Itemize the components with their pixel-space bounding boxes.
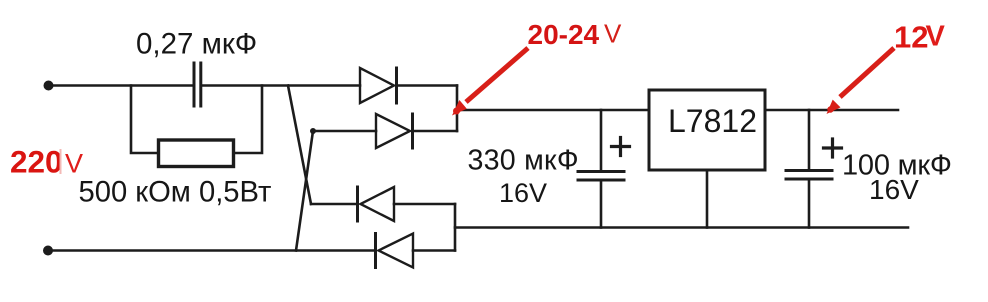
- node input terminal top: [44, 81, 54, 91]
- wire top AC left segment: [48, 84, 193, 87]
- wire D3 to - node: [394, 203, 455, 206]
- svg-text:20-24: 20-24: [528, 19, 600, 50]
- wire D1 to + node: [397, 84, 458, 87]
- wire slant top-AC to D3: [288, 86, 311, 205]
- arrow to 12 V node: [840, 48, 894, 97]
- svg-text:V: V: [926, 21, 946, 53]
- wire D2 to + node: [413, 130, 458, 133]
- svg-text:16V: 16V: [869, 174, 919, 205]
- capacitor C2 330 мкФ: [600, 110, 603, 171]
- svg-text:L7812: L7812: [668, 103, 757, 139]
- svg-text:16V: 16V: [499, 178, 547, 208]
- capacitor C1 0,27 мкФ plates: [193, 63, 196, 106]
- regulator U1 L7812 box: [649, 90, 765, 170]
- wire output plus rail right: [765, 109, 898, 112]
- diode D4: [374, 234, 377, 268]
- diode D1: [360, 68, 394, 103]
- svg-text:500 кОм 0,5Вт: 500 кОм 0,5Вт: [79, 177, 272, 209]
- node input terminal bottom: [43, 246, 53, 256]
- wire bridge minus vertical: [454, 204, 457, 251]
- wire slant D2 to bottom AC: [296, 131, 313, 251]
- node junction D2-slant: [310, 128, 316, 134]
- wire bottom AC: [48, 249, 375, 252]
- arrow to 20-24 V node: [466, 48, 528, 102]
- plus sign C3: [824, 146, 842, 149]
- svg-text:330 мкФ: 330 мкФ: [468, 145, 579, 177]
- wire RC right: [234, 86, 262, 154]
- wire U1 ground: [706, 170, 709, 228]
- wire top AC right segment: [202, 84, 360, 87]
- wire output plus rail left: [457, 109, 649, 112]
- wire D3 cathode: [311, 203, 358, 206]
- svg-text:12: 12: [894, 20, 928, 55]
- svg-text:220: 220: [10, 144, 63, 180]
- wire D2 anode: [313, 130, 376, 133]
- svg-text:0,27 мкФ: 0,27 мкФ: [136, 28, 257, 61]
- diode D3: [356, 187, 359, 221]
- wire RC left vertical: [131, 86, 158, 154]
- plus sign C2: [612, 145, 630, 148]
- resistor R1 500 кОм: [159, 140, 234, 167]
- diode D2: [376, 114, 410, 148]
- svg-text:V: V: [604, 19, 622, 49]
- capacitor C3 100 мкФ: [808, 110, 811, 170]
- wire D4 to - node: [413, 249, 455, 252]
- wire bridge plus vertical: [456, 86, 459, 132]
- svg-text:V: V: [65, 149, 83, 179]
- wire output minus rail: [455, 226, 908, 229]
